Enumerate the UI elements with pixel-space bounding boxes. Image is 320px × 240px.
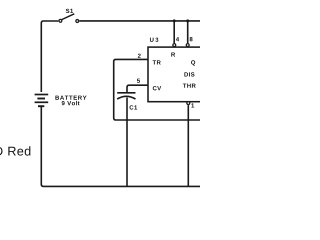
pin 5 number [137,79,140,83]
battery BT1 9 Volt [35,95,87,107]
pin 1 number [191,103,194,107]
pin DIS label [184,72,194,76]
LED D1 label (clipped) [0,146,30,155]
pin 2 number [138,54,141,58]
wire [173,21,175,43]
wire [127,85,148,92]
pin TR label [153,60,161,64]
pin 4 [173,44,176,47]
wire [41,21,58,92]
pin THR label [183,84,196,88]
pin 4 number [176,37,179,41]
wire [126,98,128,187]
junction dot [173,19,176,22]
wire [114,59,200,120]
pin 8 [186,44,189,47]
wire [41,107,200,186]
pin Q label [191,60,195,65]
svg-text:C1: C1 [129,105,138,112]
junction dot [186,19,189,22]
U3 label [150,38,158,42]
wire [187,105,189,186]
pin 1 [187,102,190,105]
pin 8 number [190,37,193,41]
op-amp/timer IC U3 box [148,47,212,102]
pin R label [171,52,175,56]
wire [79,20,200,22]
wire [187,21,189,43]
pin CV label [153,86,161,90]
switch S1 [59,9,79,23]
capacitor C1 [117,93,138,112]
